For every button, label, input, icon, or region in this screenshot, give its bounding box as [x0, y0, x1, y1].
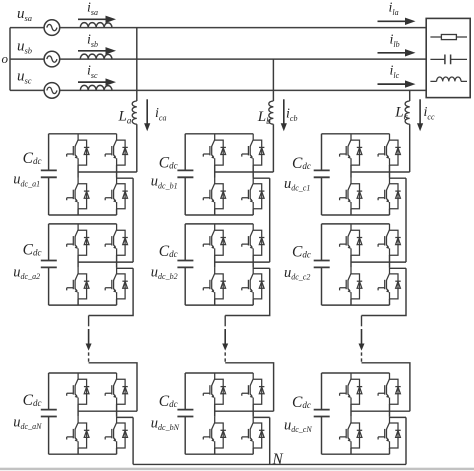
svg-text:o: o	[2, 51, 9, 66]
svg-text:N: N	[272, 451, 284, 468]
